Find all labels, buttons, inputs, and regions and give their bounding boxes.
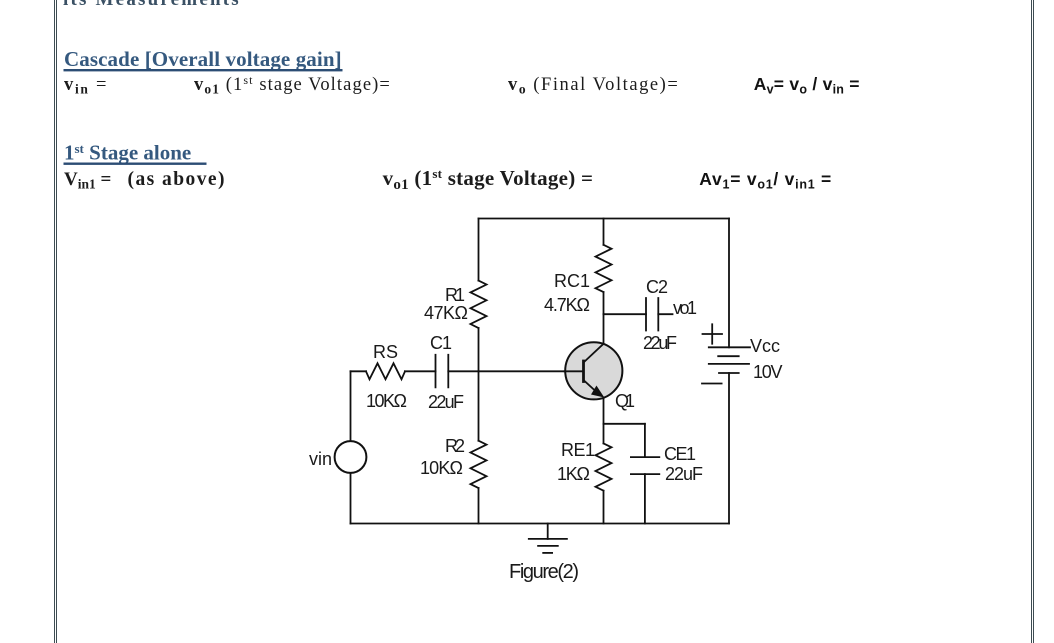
wire: vin bottom to bottom rail: [350, 473, 352, 524]
value 22uF (C1): [428, 392, 464, 412]
svg-text:RS: RS: [373, 342, 398, 362]
svg-text:vin: vin: [309, 449, 332, 469]
battery V1 minus sign: [702, 383, 722, 385]
battery V1 plus sign: [703, 324, 723, 343]
label C2: [646, 277, 668, 297]
wire: left rail base-corner to vin top: [350, 371, 352, 441]
wire: C2 output stub: [658, 313, 672, 315]
node vo1: [673, 298, 697, 318]
capacitor C2: [646, 298, 658, 331]
wire: RS to C1: [405, 370, 436, 372]
wire: CE1 branch horizontal from emitter: [604, 423, 645, 425]
wire: battery to bottom rail: [728, 373, 730, 524]
svg-text:47KΩ: 47KΩ: [424, 303, 468, 323]
wire: collector node into transistor: [603, 314, 605, 344]
svg-text:RE1: RE1: [561, 440, 595, 460]
wire: bias rail top lead (top rail to R1): [478, 219, 480, 281]
svg-text:Figure(2): Figure(2): [509, 561, 579, 583]
svg-text:22uF: 22uF: [665, 464, 703, 484]
label Vcc: [750, 336, 780, 356]
wire: RE1 to bottom rail: [603, 491, 605, 524]
label C1: [430, 333, 452, 353]
wire: R2 to bottom rail: [478, 488, 480, 524]
wire: C2 branch from collector node: [604, 313, 647, 315]
wire: collector rail top lead (top rail to RC1): [603, 219, 605, 245]
svg-text:10KΩ: 10KΩ: [420, 458, 463, 478]
value 1KΩ: [557, 464, 590, 484]
wire: CE1 to bottom rail: [644, 474, 646, 523]
capacitor C1: [436, 355, 449, 388]
wire: base wire from source corner to RS: [351, 370, 367, 372]
label CE1: [664, 444, 696, 464]
resistor RE1: [596, 443, 612, 490]
svg-text:R2: R2: [445, 436, 465, 456]
wire: R1 to base-node junction: [478, 328, 480, 371]
value 4.7KΩ: [544, 295, 590, 315]
wire: bottom rail: [351, 523, 730, 525]
source vin: [335, 441, 367, 473]
label vin: [309, 449, 332, 469]
svg-text:Vcc: Vcc: [750, 336, 780, 356]
svg-text:CE1: CE1: [664, 444, 696, 464]
transistor Q1: [565, 342, 623, 399]
svg-text:C1: C1: [430, 333, 452, 353]
svg-text:4.7KΩ: 4.7KΩ: [544, 295, 590, 315]
cut-off heading text at top edge: [63, 0, 241, 10]
section heading: 1st Stage alone: [64, 141, 191, 165]
svg-text:10V: 10V: [753, 362, 783, 382]
caption Figure(2): [509, 561, 579, 583]
value 22uF (CE1): [665, 464, 703, 484]
label RS: [373, 342, 398, 362]
capacitor CE1: [631, 457, 659, 474]
svg-text:RC1: RC1: [554, 271, 590, 291]
svg-text:Q1: Q1: [615, 391, 635, 411]
label R1: [445, 285, 465, 305]
wire: top rail: [479, 218, 730, 220]
value 10KΩ (RS): [366, 391, 407, 411]
value 47KΩ: [424, 303, 468, 323]
label R2: [445, 436, 465, 456]
resistor R2: [471, 441, 487, 488]
value 22uF (C2): [643, 333, 677, 353]
value 10KΩ (R2): [420, 458, 463, 478]
battery V1 plates: [709, 347, 750, 373]
wire: CE1 branch vertical down to capacitor: [644, 424, 646, 457]
svg-text:1KΩ: 1KΩ: [557, 464, 590, 484]
wire: C1 to transistor base: [448, 370, 583, 372]
wire: RC1 to collector node: [603, 292, 605, 314]
svg-text:22uF: 22uF: [643, 333, 677, 353]
section heading: Cascade [Overall voltage gain]: [64, 47, 342, 71]
text row: vin1 / (as above) / vo1 / Av1: [64, 166, 593, 193]
resistor RC1: [596, 245, 612, 292]
label RC1: [554, 271, 590, 291]
svg-text:C2: C2: [646, 277, 668, 297]
resistor R1: [471, 281, 487, 328]
resistor RS: [366, 363, 405, 379]
label RE1: [561, 440, 595, 460]
left page border (double line): [54, 0, 55, 643]
wire: bias rail between base node and R2: [478, 371, 480, 440]
ground: [529, 524, 567, 553]
label Q1: [615, 391, 635, 411]
svg-text:10KΩ: 10KΩ: [366, 391, 407, 411]
wire: Vcc rail from top rail to battery: [728, 219, 730, 348]
value 10V: [753, 362, 783, 382]
right page border (double line): [1031, 0, 1032, 643]
svg-text:22uF: 22uF: [428, 392, 464, 412]
svg-text:R1: R1: [445, 285, 465, 305]
text row: vin / vo1 / vo / Av: [64, 73, 679, 97]
wire: emitter rail to RE1: [603, 398, 605, 444]
svg-text:vo1: vo1: [673, 298, 697, 318]
